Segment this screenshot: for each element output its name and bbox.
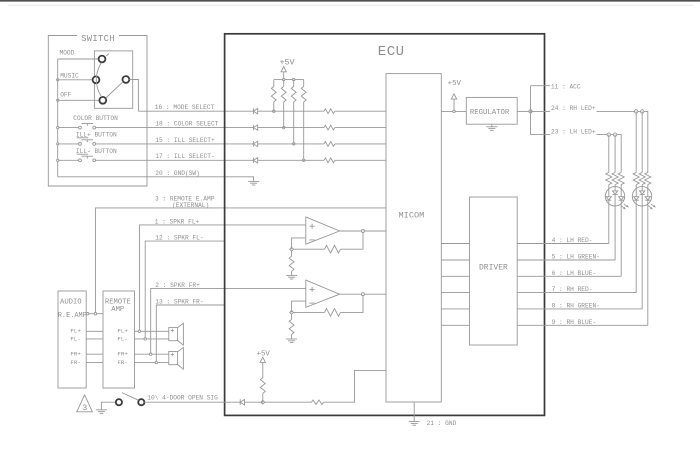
wire pin15 ILL SELECT+ [96, 143, 254, 145]
svg-text:11 : ACC: 11 : ACC [551, 83, 581, 90]
junction regulator output [529, 110, 532, 113]
resistor U4B to ground [291, 314, 293, 319]
pushbutton ILL+ actuator [82, 139, 94, 141]
pushbutton ILL+ wire left [59, 143, 79, 145]
pushbutton COLOR actuator [82, 123, 94, 125]
LED RH right [647, 185, 649, 197]
ground U4A [286, 274, 297, 276]
ECU box outline [225, 34, 545, 416]
wire remoteamp-FL+ to speaker [135, 330, 169, 332]
wire line15 to MICOM [335, 143, 386, 145]
wire pin2 SPKR FR+ [151, 288, 306, 354]
wire pin17 ILL SELECT- [96, 159, 254, 161]
wire U4B feedback right [341, 294, 364, 312]
pushbutton COLOR contact A [79, 126, 82, 129]
op-amp U4A inverting input wire [292, 238, 306, 249]
LED package LH circle [605, 187, 624, 206]
svg-text:SWITCH: SWITCH [81, 34, 115, 44]
wire door line to node [245, 401, 263, 403]
wire driver out 4 [517, 243, 544, 245]
wire audio-FR- [86, 362, 103, 364]
pushbutton ILL- contact B [93, 159, 96, 162]
junction U4B output [361, 293, 364, 296]
resistor pullup R4 [303, 80, 305, 87]
svg-text:AMP: AMP [111, 306, 124, 314]
pushbutton COLOR terminal [57, 127, 59, 129]
wire pin5 LH GREEN- [545, 259, 616, 261]
contact MUSIC [93, 76, 100, 83]
wire driver out 8 [517, 308, 544, 310]
svg-text:18 : COLOR SELECT: 18 : COLOR SELECT [155, 120, 218, 127]
door switch contact A [116, 399, 122, 405]
svg-text:24 : RH LED+: 24 : RH LED+ [551, 105, 596, 112]
svg-text:20 : GND(SW): 20 : GND(SW) [155, 170, 200, 177]
pushbutton ILL- terminal [57, 159, 59, 161]
wire pin12 SPKR FL- [145, 241, 224, 339]
resistor LH R-left [606, 172, 612, 184]
op-amp U4B inverting input wire [292, 301, 306, 312]
resistor U4A to ground [291, 251, 293, 256]
wire pin3 REMOTE E.AMP [95, 208, 386, 314]
wire pin10 4-DOOR OPEN SIG [144, 401, 240, 403]
wire pin24 RH LED+ left [531, 110, 551, 112]
page top rule [8, 4, 693, 6]
wire pin13 SPKR FR- [156, 305, 224, 363]
resistor pullup R2 [283, 80, 285, 87]
remote amp box [103, 291, 135, 388]
wire micom-driver 4 [441, 243, 469, 245]
wire pin23 LH LED+ left [531, 134, 551, 136]
wire LH anode mid [614, 135, 616, 173]
wire audio-FL+ [86, 330, 103, 332]
svg-text:17 : ILL SELECT-: 17 : ILL SELECT- [155, 153, 214, 160]
acc bus vertical [530, 86, 532, 135]
svg-text:15 : ILL SELECT+: 15 : ILL SELECT+ [155, 137, 215, 144]
node door pullup junction [261, 400, 265, 404]
resistor door series [312, 400, 324, 404]
wire RH anode left [635, 111, 637, 172]
wiper tick MOOD [106, 54, 109, 56]
svg-text:ECU: ECU [378, 44, 405, 60]
resistor RH R-left [633, 172, 639, 184]
junction pullup R3 [293, 143, 295, 145]
wire R.E.AMP [86, 313, 103, 315]
wire driver out 5 [517, 259, 544, 261]
ground door switch [96, 409, 107, 411]
wire +5V bottom stem [262, 362, 264, 377]
pushbutton COLOR wire left [59, 127, 79, 129]
diode D10 [239, 399, 241, 405]
junction pullup R4 [303, 159, 305, 161]
wire U4A feedback right [341, 231, 364, 249]
wire MICOM to regulator [441, 110, 466, 112]
door switch contact B [138, 399, 144, 405]
page top border [0, 0, 700, 2]
wire pin6 LH BLUE- [545, 275, 622, 277]
svg-text:FR+: FR+ [117, 351, 128, 358]
resistor series R18 [324, 125, 335, 130]
wire remoteamp-FR+ to speaker [135, 353, 169, 355]
contact MOOD [99, 56, 106, 63]
svg-text:MICOM: MICOM [399, 210, 425, 220]
wire line17 to MICOM [335, 159, 386, 161]
LED LH right [620, 185, 622, 197]
junction reg input [453, 110, 455, 112]
pushbutton ILL+ contact B [93, 143, 96, 146]
wire line16 mid [258, 110, 324, 112]
resistor LH R-right [618, 172, 624, 184]
wire door pullup bottom [262, 393, 264, 402]
junction RH LED+ A [635, 110, 638, 113]
resistor U4B feedback [325, 309, 341, 317]
wire pin9 RH BLUE- [545, 324, 648, 326]
speaker SP1 box [169, 327, 178, 340]
op-amp U4A plus sign [310, 225, 315, 227]
wire door line to resistor [265, 401, 312, 403]
LED RH emission arrows [648, 205, 653, 209]
LED package RH circle [632, 187, 651, 206]
svg-text:DRIVER: DRIVER [479, 264, 508, 273]
wire U4A output [340, 230, 387, 232]
junction bus B [293, 78, 295, 80]
terminal R.E.AMP [87, 313, 89, 315]
op-amp U4B minus sign [309, 302, 314, 304]
selector wiper [106, 82, 123, 98]
contact COMMON [123, 76, 130, 83]
svg-text:FL+: FL+ [117, 328, 128, 335]
resistor RH R-right [645, 172, 651, 184]
+5V bus [274, 79, 304, 81]
wire line15 mid [258, 143, 324, 145]
wire line18 to MICOM [335, 127, 386, 129]
junction RH LED+ B [641, 110, 644, 113]
svg-text:FL+: FL+ [70, 328, 81, 335]
junction speaker FL- [144, 338, 146, 340]
resistor series R15 [324, 142, 335, 147]
resistor LH R-mid [612, 172, 618, 184]
terminal MUSIC [57, 79, 59, 81]
svg-text:MUSIC: MUSIC [60, 72, 79, 79]
ground regulator [486, 126, 497, 128]
wire micom-driver 6 [441, 275, 469, 277]
junction bus A [283, 78, 285, 80]
wire RH anode mid [641, 111, 643, 172]
svg-text:13 : SPKR FR-: 13 : SPKR FR- [155, 299, 203, 306]
wire line16 to MICOM [335, 110, 386, 112]
svg-text:3: 3 [82, 403, 87, 413]
node U4A feedback junction [290, 247, 294, 251]
ground GND(SW) [248, 180, 259, 182]
wire U4B feedback left [294, 311, 325, 313]
svg-text:REGULATOR: REGULATOR [470, 109, 510, 117]
wire door switch ground leg [101, 402, 115, 410]
pushbutton ILL- actuator [82, 155, 94, 157]
junction pullup R1 [273, 110, 275, 112]
wire common to node [129, 80, 138, 112]
svg-text:MOOD: MOOD [60, 49, 75, 56]
wire driver out 9 [517, 324, 544, 326]
pushbutton ILL- contact A [79, 159, 82, 162]
LED LH mid [614, 185, 616, 191]
svg-text:OFF: OFF [60, 92, 71, 99]
wire pin16 MODE SELECT [138, 110, 253, 112]
rotary selector box [94, 51, 132, 108]
resistor series R17 [324, 158, 335, 163]
wire pin4 LH RED- [545, 243, 609, 245]
junction LH LED+ B [613, 133, 616, 136]
pushbutton ILL+ terminal [57, 143, 59, 145]
svg-text:+5V: +5V [448, 80, 462, 88]
resistor door pullup [260, 378, 265, 394]
junction R.E.AMP [94, 313, 96, 315]
wire U4B output [340, 293, 387, 295]
wire door line to MICOM [324, 370, 387, 402]
svg-text:+5V: +5V [257, 351, 271, 359]
pushbutton ILL+ contact A [79, 143, 82, 146]
junction LH LED+ A [607, 133, 610, 136]
svg-text:+5V: +5V [279, 58, 294, 68]
selector arc [96, 63, 101, 97]
underline ILL+ [77, 137, 88, 139]
warning triangle note3 [77, 395, 93, 412]
resistor series R16 [324, 109, 335, 114]
wire pin24 RH LED+ right [597, 111, 648, 172]
wire MICOM ground stem [413, 402, 415, 422]
audio box [58, 291, 86, 388]
driver box U3 [470, 197, 518, 345]
svg-text:FR-: FR- [70, 359, 80, 366]
switch left bus [57, 59, 59, 177]
wire micom-driver 5 [441, 259, 469, 261]
LED LH emission arrows [621, 205, 626, 209]
op-amp U4A triangle [306, 217, 340, 244]
wire line18 mid [258, 127, 324, 129]
pushbutton ILL- wire left [59, 159, 79, 161]
terminal OFF [57, 99, 59, 101]
ground U4B [286, 338, 297, 340]
wire micom-driver 8 [441, 308, 469, 310]
svg-text:FR+: FR+ [70, 351, 81, 358]
wire micom-driver 7 [441, 292, 469, 294]
wire pin20 GND(SW) [58, 177, 254, 182]
wire pin8 RH GREEN- [545, 308, 643, 310]
contact OFF [99, 97, 106, 104]
wire regulator ground stem [491, 124, 493, 127]
wire micom-driver 9 [441, 324, 469, 326]
wire pin23 LH LED+ right [597, 135, 622, 173]
diode D16 [252, 108, 254, 114]
resistor U4A feedback [325, 245, 341, 253]
speaker SP2 horn [178, 347, 184, 369]
junction pullup R2 [283, 126, 285, 128]
diode D15 [252, 141, 254, 147]
LED RH left [635, 185, 637, 197]
resistor pullup R1 [273, 80, 275, 87]
speaker SP2 plus [171, 354, 174, 356]
svg-text:12 : SPKR FL-: 12 : SPKR FL- [155, 235, 203, 242]
svg-text:23 : LH LED+: 23 : LH LED+ [551, 129, 596, 136]
wire pin7 RH RED- [545, 292, 637, 294]
svg-text:21 : GND: 21 : GND [427, 420, 457, 427]
speaker SP1 plus [171, 329, 174, 331]
node U4B feedback junction [290, 311, 294, 315]
regulator box U2 [466, 97, 517, 124]
wire pin11 ACC [531, 85, 551, 87]
MICOM box U1 [386, 74, 441, 402]
switch box SW1 outline [48, 36, 147, 187]
op-amp U4B triangle [306, 280, 340, 307]
wire +5V reg stem [453, 99, 455, 111]
op-amp U4A minus sign [309, 239, 314, 241]
wire pin18 COLOR SELECT [96, 127, 254, 129]
svg-text:R.E.AMP: R.E.AMP [58, 312, 87, 320]
wire driver out 7 [517, 292, 544, 294]
LED RH mid [641, 185, 643, 191]
svg-text:1 : SPKR FL+: 1 : SPKR FL+ [155, 218, 200, 225]
wire OFF [58, 99, 100, 101]
diode D18 [252, 125, 254, 131]
wire audio-FR+ [86, 353, 103, 355]
svg-text:FR-: FR- [117, 359, 127, 366]
ground MICOM pin21 [409, 421, 420, 423]
wire U4A feedback left [294, 248, 325, 250]
resistor RH R-mid [639, 172, 645, 184]
speaker SP2 box [169, 352, 178, 365]
junction U4A output [361, 230, 364, 233]
pushbutton COLOR contact B [93, 126, 96, 129]
junction speaker FR+ [150, 353, 152, 355]
wire remoteamp-FR- to speaker [135, 362, 169, 364]
wire regulator output [517, 110, 530, 112]
underline ILL- [77, 153, 88, 155]
svg-text:FL-: FL- [117, 335, 127, 342]
resistor pullup R3 [293, 80, 295, 87]
LED LH left [608, 185, 610, 197]
op-amp U4B plus sign [310, 288, 315, 290]
speaker SP1 horn [178, 323, 184, 345]
junction speaker FR- [155, 361, 157, 363]
wire audio-FL- [86, 338, 103, 340]
wire remoteamp-FL- to speaker [135, 338, 169, 340]
wire pin1 SPKR FL+ [139, 225, 305, 331]
svg-text:FL-: FL- [70, 335, 80, 342]
svg-text:COLOR BUTTON: COLOR BUTTON [73, 115, 118, 122]
wire +5V stem [283, 72, 285, 80]
wire line17 mid [258, 159, 324, 161]
wire driver out 6 [517, 275, 544, 277]
diode D17 [252, 158, 254, 164]
svg-text:16 : MODE SELECT: 16 : MODE SELECT [155, 104, 215, 111]
svg-text:10\ 4-DOOR OPEN SIG: 10\ 4-DOOR OPEN SIG [147, 394, 218, 401]
junction speaker FL+ [138, 330, 140, 332]
wire LH anode left [608, 135, 610, 173]
svg-text:AUDIO: AUDIO [60, 299, 82, 307]
door switch blade [122, 393, 138, 401]
wire MUSIC [58, 79, 93, 81]
wire MOOD [58, 58, 99, 60]
